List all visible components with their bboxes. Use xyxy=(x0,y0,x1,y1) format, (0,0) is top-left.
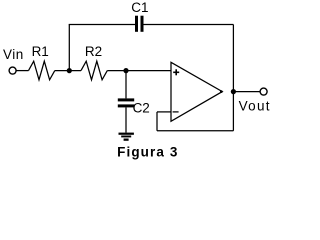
svg-text:R1: R1 xyxy=(32,44,49,59)
wire output to Vout xyxy=(233,91,259,93)
wire C1 to right corner xyxy=(144,24,234,26)
wire feedback left vertical xyxy=(156,112,158,131)
node output junction xyxy=(231,89,236,94)
node A junction xyxy=(67,68,72,73)
ground xyxy=(119,133,134,135)
op-amp output tip xyxy=(220,90,223,93)
svg-text:Vin: Vin xyxy=(3,47,24,62)
op-amp plus input symbol xyxy=(173,71,179,73)
wire top left to C1 xyxy=(69,24,135,26)
terminal Vin xyxy=(9,67,16,74)
terminal Vout xyxy=(260,88,267,95)
node B junction xyxy=(123,68,128,73)
resistor R1 xyxy=(29,61,55,80)
op-amp U1 xyxy=(171,62,222,121)
wire R2 to op-amp xyxy=(107,70,171,72)
wire inverting input xyxy=(157,111,172,113)
svg-text:R2: R2 xyxy=(85,44,102,59)
wire C2 to ground xyxy=(125,107,127,132)
wire R1 to R2 xyxy=(55,70,81,72)
wire node B down to C2 xyxy=(125,71,127,99)
capacitor C2 xyxy=(118,98,134,101)
wire feedback bottom xyxy=(157,130,233,132)
svg-text:C1: C1 xyxy=(131,0,148,15)
op-amp minus input symbol xyxy=(173,111,179,113)
svg-text:C2: C2 xyxy=(133,101,150,116)
svg-text:Vout: Vout xyxy=(239,99,271,114)
svg-text:Figura 3: Figura 3 xyxy=(117,145,178,160)
wire right vertical xyxy=(232,25,234,131)
wire Vin to R1 xyxy=(16,70,29,72)
resistor R2 xyxy=(81,61,107,80)
capacitor C1 xyxy=(135,16,138,32)
wire node A up xyxy=(68,25,70,71)
